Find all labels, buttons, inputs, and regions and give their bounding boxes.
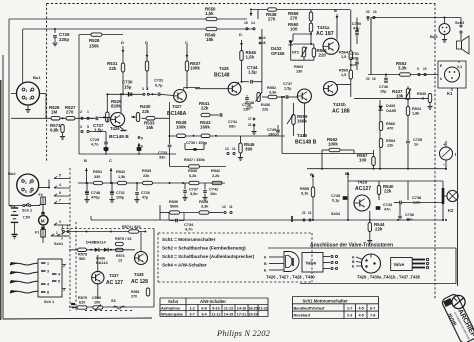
svg-text:R528: R528 bbox=[89, 38, 100, 43]
svg-text:B: B bbox=[345, 171, 348, 176]
svg-text:Bu3: Bu3 bbox=[430, 34, 438, 39]
svg-text:150k: 150k bbox=[89, 44, 99, 49]
svg-text:NTC: NTC bbox=[292, 51, 300, 55]
svg-text:270: 270 bbox=[268, 17, 276, 22]
svg-text:21-22: 21-22 bbox=[258, 306, 267, 310]
svg-text:C746: C746 bbox=[379, 85, 388, 89]
svg-text:9: 9 bbox=[417, 67, 419, 71]
svg-text:0,7µ: 0,7µ bbox=[155, 84, 162, 88]
svg-text:Sch 1: Sch 1 bbox=[44, 300, 54, 304]
svg-text:K2: K2 bbox=[448, 208, 454, 213]
svg-text:22k: 22k bbox=[375, 227, 383, 232]
svg-text:BA114: BA114 bbox=[94, 241, 106, 245]
svg-text:C731: C731 bbox=[154, 79, 163, 83]
svg-text:Valve: Valve bbox=[394, 262, 405, 267]
svg-text:Rücklauf: Rücklauf bbox=[294, 313, 311, 318]
svg-text:R552: R552 bbox=[267, 86, 276, 90]
svg-text:1: 1 bbox=[87, 110, 89, 114]
svg-text:3-4: 3-4 bbox=[201, 312, 207, 316]
svg-text:4: 4 bbox=[58, 273, 60, 277]
svg-text:3: 3 bbox=[59, 220, 61, 224]
svg-text:B: B bbox=[334, 8, 337, 13]
svg-text:6: 6 bbox=[59, 191, 61, 195]
svg-text:BC148: BC148 bbox=[214, 73, 230, 79]
svg-text:K1: K1 bbox=[447, 91, 453, 96]
svg-text:22: 22 bbox=[302, 211, 306, 215]
svg-text:R581: R581 bbox=[131, 290, 140, 294]
svg-text:A/W-Schalter: A/W-Schalter bbox=[200, 299, 226, 304]
svg-text:2-3: 2-3 bbox=[347, 314, 352, 318]
svg-text:3-7: 3-7 bbox=[189, 312, 194, 316]
svg-text:3: 3 bbox=[142, 87, 144, 91]
svg-text:AC 127: AC 127 bbox=[106, 280, 123, 286]
svg-text:AC 187: AC 187 bbox=[316, 31, 334, 37]
svg-text:1,5k: 1,5k bbox=[118, 175, 126, 179]
svg-text:15k: 15k bbox=[146, 125, 154, 130]
svg-text:5: 5 bbox=[58, 280, 60, 284]
svg-text:E: E bbox=[440, 64, 442, 68]
svg-text:0: 0 bbox=[30, 97, 32, 101]
svg-text:R551: R551 bbox=[93, 170, 102, 174]
svg-text:6,2k: 6,2k bbox=[189, 174, 197, 178]
svg-text:BC148 B: BC148 B bbox=[295, 140, 317, 146]
svg-text:C748: C748 bbox=[245, 101, 254, 105]
svg-text:180p: 180p bbox=[268, 133, 277, 137]
svg-text:5: 5 bbox=[59, 173, 61, 177]
svg-text:100: 100 bbox=[359, 158, 367, 163]
svg-text:13: 13 bbox=[225, 147, 229, 151]
svg-text:7,5V: 7,5V bbox=[23, 216, 31, 220]
svg-text:R554: R554 bbox=[386, 139, 396, 143]
svg-text:3,9n: 3,9n bbox=[190, 192, 198, 196]
svg-text:R542: R542 bbox=[211, 169, 220, 173]
svg-text:C735: C735 bbox=[413, 138, 422, 142]
svg-text:7: 7 bbox=[59, 198, 61, 202]
svg-text:F2: F2 bbox=[39, 193, 43, 197]
svg-text:1-7: 1-7 bbox=[347, 306, 352, 310]
svg-text:R565: R565 bbox=[339, 69, 348, 73]
svg-text:Bu2: Bu2 bbox=[8, 171, 16, 176]
svg-text:Bu1: Bu1 bbox=[33, 75, 41, 80]
svg-text:T430: T430 bbox=[297, 133, 308, 138]
svg-text:12: 12 bbox=[222, 205, 226, 209]
svg-text:11: 11 bbox=[229, 205, 233, 209]
svg-text:1: 1 bbox=[56, 231, 58, 235]
svg-text:16: 16 bbox=[262, 41, 266, 45]
svg-text:Philips N 2202: Philips N 2202 bbox=[216, 329, 270, 338]
svg-text:R539: R539 bbox=[188, 169, 197, 173]
svg-text:10: 10 bbox=[423, 67, 427, 71]
svg-text:560k: 560k bbox=[170, 205, 179, 209]
svg-text:C738: C738 bbox=[412, 196, 421, 200]
svg-text:B: B bbox=[264, 262, 267, 266]
svg-text:22k: 22k bbox=[109, 66, 117, 71]
svg-text:K: K bbox=[264, 256, 267, 260]
svg-text:3,3k: 3,3k bbox=[201, 205, 209, 209]
svg-text:M: M bbox=[41, 219, 45, 224]
svg-text:1: 1 bbox=[47, 262, 49, 266]
svg-text:R566: R566 bbox=[386, 122, 395, 126]
svg-text:R534: R534 bbox=[412, 107, 422, 111]
svg-text:330: 330 bbox=[94, 175, 100, 179]
svg-text:F1: F1 bbox=[35, 231, 39, 235]
svg-text:I: I bbox=[455, 152, 456, 157]
svg-text:6-8: 6-8 bbox=[201, 306, 206, 310]
svg-text:Sch2 = Schaltbuchse (Fernbed: Sch2 = Schaltbuchse (Fernbedienung) bbox=[162, 246, 246, 251]
svg-text:Sch4: Sch4 bbox=[168, 299, 179, 304]
svg-text:21: 21 bbox=[248, 123, 252, 127]
svg-text:15: 15 bbox=[244, 21, 248, 25]
svg-text:Anschlüsse der Valve-Transisto: Anschlüsse der Valve-Transistoren bbox=[310, 243, 393, 249]
svg-text:560: 560 bbox=[79, 257, 85, 261]
svg-text:22k: 22k bbox=[262, 108, 269, 112]
svg-text:13: 13 bbox=[118, 259, 122, 263]
svg-text:T431a: T431a bbox=[317, 25, 330, 30]
svg-text:C728: C728 bbox=[141, 191, 150, 195]
svg-text:1,5: 1,5 bbox=[341, 55, 346, 59]
svg-text:12n: 12n bbox=[246, 106, 253, 110]
svg-text:270: 270 bbox=[290, 16, 298, 21]
svg-text:15µ: 15µ bbox=[124, 85, 132, 90]
svg-text:5: 5 bbox=[25, 190, 27, 194]
svg-text:1,5k: 1,5k bbox=[205, 11, 214, 16]
svg-text:C750: C750 bbox=[352, 22, 361, 26]
svg-text:C734: C734 bbox=[184, 223, 194, 227]
svg-text:390: 390 bbox=[245, 147, 253, 152]
svg-text:B: B bbox=[84, 158, 87, 163]
svg-text:C736: C736 bbox=[405, 213, 414, 217]
svg-text:R555: R555 bbox=[300, 187, 309, 191]
svg-text:1,5: 1,5 bbox=[341, 73, 346, 77]
svg-text:1: 1 bbox=[25, 181, 27, 185]
svg-text:R578: R578 bbox=[78, 253, 87, 257]
svg-text:7: 7 bbox=[67, 225, 69, 229]
svg-text:9,1k: 9,1k bbox=[301, 192, 309, 196]
svg-text:R532: R532 bbox=[116, 170, 125, 174]
svg-text:C751: C751 bbox=[350, 52, 359, 56]
svg-text:C732: C732 bbox=[116, 191, 125, 195]
svg-text:6: 6 bbox=[141, 137, 143, 141]
svg-text:470µ: 470µ bbox=[91, 196, 100, 200]
svg-text:22k: 22k bbox=[143, 174, 150, 178]
svg-text:18: 18 bbox=[372, 77, 376, 81]
svg-text:47n: 47n bbox=[384, 208, 391, 212]
svg-text:20: 20 bbox=[366, 77, 370, 81]
svg-text:5: 5 bbox=[87, 125, 89, 129]
svg-text:R575 / 93: R575 / 93 bbox=[115, 237, 131, 241]
svg-text:T429 , T430a ,T431b , T437 ,T: T429 , T430a ,T431b , T437 ,T438 bbox=[357, 275, 421, 280]
svg-text:100: 100 bbox=[94, 301, 100, 305]
svg-text:S434: S434 bbox=[331, 212, 341, 216]
svg-text:Sch4 = A/W-Schalter: Sch4 = A/W-Schalter bbox=[162, 263, 207, 268]
svg-text:8: 8 bbox=[47, 291, 49, 295]
svg-text:22k: 22k bbox=[384, 189, 392, 194]
svg-text:4,7n: 4,7n bbox=[91, 143, 99, 147]
svg-text:4-5: 4-5 bbox=[359, 314, 364, 318]
svg-text:17: 17 bbox=[248, 117, 252, 121]
svg-text:19: 19 bbox=[373, 10, 377, 14]
svg-text:Sch1 Motorumschalter: Sch1 Motorumschalter bbox=[303, 298, 349, 303]
svg-text:2: 2 bbox=[80, 110, 82, 114]
svg-text:S3: S3 bbox=[111, 299, 116, 303]
svg-text:100µ: 100µ bbox=[116, 196, 124, 200]
svg-text:10µ: 10µ bbox=[380, 90, 386, 94]
svg-text:C745: C745 bbox=[331, 194, 340, 198]
svg-text:D: D bbox=[145, 40, 148, 45]
svg-text:10k: 10k bbox=[396, 94, 404, 99]
svg-text:R574 / 820: R574 / 820 bbox=[122, 225, 141, 229]
svg-text:Aufnahme: Aufnahme bbox=[161, 305, 181, 310]
svg-text:4: 4 bbox=[59, 183, 61, 187]
svg-text:6-7: 6-7 bbox=[370, 306, 375, 310]
svg-text:6,8k: 6,8k bbox=[50, 128, 59, 133]
svg-text:C742: C742 bbox=[209, 188, 218, 192]
svg-text:1M: 1M bbox=[51, 110, 57, 115]
svg-text:0,1µ: 0,1µ bbox=[332, 199, 339, 203]
svg-text:R535: R535 bbox=[142, 169, 151, 173]
svg-text:K: K bbox=[352, 256, 355, 260]
svg-text:C729: C729 bbox=[90, 138, 99, 142]
svg-text:21: 21 bbox=[308, 211, 312, 215]
svg-text:BC149 B: BC149 B bbox=[109, 134, 129, 140]
svg-text:11: 11 bbox=[232, 147, 236, 151]
svg-text:T426 , T427 , T428 , T430: T426 , T427 , T428 , T430 bbox=[266, 275, 315, 280]
svg-text:47µ: 47µ bbox=[353, 27, 359, 31]
svg-text:100k: 100k bbox=[328, 142, 338, 147]
svg-text:Sch3 = Schaltbuchse (Außenla: Sch3 = Schaltbuchse (Außenlautsprecher) bbox=[162, 254, 255, 259]
svg-text:11-12: 11-12 bbox=[211, 312, 220, 316]
svg-text:160k: 160k bbox=[297, 119, 307, 124]
svg-text:T437: T437 bbox=[109, 273, 119, 278]
svg-text:C580: C580 bbox=[92, 296, 101, 300]
svg-text:3,3k: 3,3k bbox=[398, 66, 407, 71]
svg-text:R579: R579 bbox=[78, 296, 87, 300]
svg-text:1,5k: 1,5k bbox=[246, 55, 255, 60]
svg-text:4: 4 bbox=[30, 89, 32, 93]
svg-text:1,5µ: 1,5µ bbox=[284, 87, 291, 91]
svg-text:18k: 18k bbox=[206, 37, 214, 42]
svg-text:R436: R436 bbox=[261, 103, 270, 107]
svg-text:14: 14 bbox=[251, 21, 255, 25]
svg-text:100: 100 bbox=[290, 27, 298, 32]
svg-text:470: 470 bbox=[387, 127, 393, 131]
svg-text:0,4: 0,4 bbox=[457, 65, 462, 69]
svg-text:68n: 68n bbox=[229, 125, 236, 129]
svg-text:AC 128: AC 128 bbox=[131, 279, 148, 285]
svg-text:20: 20 bbox=[366, 10, 370, 14]
svg-text:220p: 220p bbox=[59, 37, 69, 42]
svg-text:C: C bbox=[109, 158, 112, 163]
svg-text:BC148A: BC148A bbox=[167, 111, 187, 117]
svg-text:C733: C733 bbox=[158, 151, 167, 155]
svg-text:7-8: 7-8 bbox=[370, 314, 375, 318]
svg-text:R564: R564 bbox=[339, 51, 349, 55]
svg-text:R536: R536 bbox=[169, 200, 178, 204]
svg-text:4,7n: 4,7n bbox=[185, 228, 193, 232]
svg-text:19-20: 19-20 bbox=[248, 312, 257, 316]
svg-text:14: 14 bbox=[262, 36, 266, 40]
svg-text:T438: T438 bbox=[134, 272, 144, 277]
svg-text:1: 1 bbox=[458, 60, 460, 64]
svg-text:B: B bbox=[310, 172, 313, 177]
svg-text:1: 1 bbox=[26, 89, 28, 93]
svg-text:22k: 22k bbox=[142, 109, 150, 114]
svg-text:22k: 22k bbox=[201, 106, 209, 111]
svg-text:C741: C741 bbox=[228, 120, 237, 124]
svg-text:270: 270 bbox=[66, 110, 74, 115]
svg-text:620: 620 bbox=[79, 301, 85, 305]
svg-text:14-16: 14-16 bbox=[237, 306, 246, 310]
svg-text:2: 2 bbox=[62, 225, 64, 229]
svg-text:100k: 100k bbox=[190, 66, 200, 71]
svg-text:1n: 1n bbox=[414, 143, 419, 147]
svg-text:D: D bbox=[121, 40, 124, 45]
svg-text:3,3k: 3,3k bbox=[269, 91, 277, 95]
svg-text:Sch3: Sch3 bbox=[455, 21, 464, 25]
svg-text:820k: 820k bbox=[111, 104, 121, 109]
svg-text:10n: 10n bbox=[210, 192, 217, 196]
svg-text:47µ: 47µ bbox=[142, 196, 148, 200]
svg-text:160k: 160k bbox=[200, 125, 210, 130]
svg-text:3: 3 bbox=[47, 270, 49, 274]
svg-text:11-13: 11-13 bbox=[224, 306, 233, 310]
svg-text:2: 2 bbox=[422, 97, 424, 101]
svg-text:4: 4 bbox=[47, 283, 49, 287]
svg-text:D436: D436 bbox=[96, 257, 105, 261]
svg-text:1-2: 1-2 bbox=[189, 306, 194, 310]
svg-text:270: 270 bbox=[131, 295, 137, 299]
svg-text:R530: R530 bbox=[417, 92, 426, 96]
svg-text:Sch 2: Sch 2 bbox=[22, 209, 32, 213]
svg-text:R563: R563 bbox=[294, 65, 303, 69]
svg-text:130: 130 bbox=[296, 70, 302, 74]
svg-text:R576: R576 bbox=[116, 254, 125, 258]
svg-text:Wiedergabe: Wiedergabe bbox=[161, 311, 184, 316]
svg-text:C737: C737 bbox=[189, 188, 198, 192]
svg-text:10: 10 bbox=[29, 190, 33, 194]
svg-text:C743: C743 bbox=[383, 203, 392, 207]
svg-text:C749: C749 bbox=[267, 128, 276, 132]
svg-text:C747: C747 bbox=[283, 82, 292, 86]
svg-text:1,5µ: 1,5µ bbox=[248, 70, 257, 75]
svg-text:AC127: AC127 bbox=[355, 186, 371, 192]
svg-text:3: 3 bbox=[29, 181, 31, 185]
svg-text:T431b: T431b bbox=[333, 102, 346, 107]
svg-text:T428: T428 bbox=[219, 66, 229, 71]
svg-text:OF156: OF156 bbox=[271, 51, 285, 56]
svg-text:T427: T427 bbox=[172, 104, 182, 109]
svg-text:D433: D433 bbox=[386, 104, 395, 108]
svg-text:C: C bbox=[185, 40, 188, 45]
svg-text:100k: 100k bbox=[176, 125, 186, 130]
svg-text:D: D bbox=[239, 32, 242, 37]
svg-text:17-21: 17-21 bbox=[237, 312, 246, 316]
svg-text:R547 / 330k: R547 / 330k bbox=[184, 158, 206, 162]
svg-text:5: 5 bbox=[26, 97, 28, 101]
svg-text:2,2k: 2,2k bbox=[212, 174, 220, 178]
svg-text:1,8k: 1,8k bbox=[412, 112, 420, 116]
svg-text:b: b bbox=[440, 77, 442, 81]
svg-text:T426: T426 bbox=[110, 126, 120, 131]
svg-text:Sch1: Sch1 bbox=[54, 242, 63, 246]
svg-text:Sch1 = Motorumschalter: Sch1 = Motorumschalter bbox=[162, 237, 216, 242]
svg-text:C748: C748 bbox=[91, 191, 100, 195]
svg-text:18-20: 18-20 bbox=[248, 306, 257, 310]
svg-text:AC 188: AC 188 bbox=[332, 109, 350, 115]
svg-text:T429: T429 bbox=[357, 180, 368, 185]
svg-text:39n: 39n bbox=[406, 218, 413, 222]
svg-text:R548: R548 bbox=[199, 200, 208, 204]
svg-text:33n: 33n bbox=[159, 156, 166, 160]
svg-text:B: B bbox=[352, 260, 355, 264]
svg-text:9-10: 9-10 bbox=[212, 306, 219, 310]
svg-text:4-5: 4-5 bbox=[359, 306, 364, 310]
svg-text:3: 3 bbox=[80, 125, 82, 129]
svg-text:14-15: 14-15 bbox=[224, 312, 233, 316]
svg-text:Bandlauf/Vorlauf: Bandlauf/Vorlauf bbox=[294, 305, 326, 310]
svg-text:8: 8 bbox=[141, 145, 143, 149]
svg-text:Valve: Valve bbox=[306, 261, 317, 266]
svg-text:OA95: OA95 bbox=[386, 109, 396, 113]
svg-text:220: 220 bbox=[319, 53, 327, 58]
svg-text:12k: 12k bbox=[387, 144, 394, 148]
